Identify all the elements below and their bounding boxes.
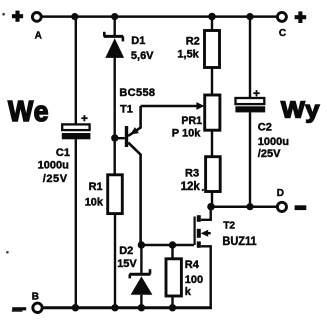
- wire D1 branch top: [113, 17, 115, 37]
- svg-text:C: C: [279, 28, 286, 39]
- wire C2 branch bottom: [249, 112, 251, 206]
- wire D2 cathode lead: [140, 245, 142, 274]
- svg-text:1,5k: 1,5k: [177, 49, 199, 61]
- wire D1 anode to base node: [113, 58, 115, 176]
- svg-text:/25V: /25V: [258, 148, 281, 160]
- svg-text:/25V: /25V: [43, 173, 68, 185]
- svg-text:15V: 15V: [117, 258, 137, 270]
- svg-text:10k: 10k: [85, 196, 104, 208]
- plus symbol at C: [295, 11, 307, 23]
- plus symbol at A: [12, 11, 23, 22]
- svg-text:Wy: Wy: [281, 97, 321, 123]
- junction dot bottom C1: [72, 304, 79, 311]
- scan speck after 12k: [202, 189, 204, 191]
- junction dot drain node: [207, 203, 215, 211]
- wire output row to D: [211, 205, 277, 208]
- C2 value label: [258, 121, 289, 160]
- svg-text:D1: D1: [131, 35, 145, 47]
- capacitor C1: [62, 115, 91, 139]
- terminal D: [277, 202, 286, 211]
- wire T1 base: [115, 137, 125, 139]
- svg-text:T1: T1: [120, 103, 133, 115]
- svg-text:R3: R3: [185, 167, 199, 179]
- scan speck left middle: [6, 251, 9, 254]
- junction dot bottom D2: [138, 304, 145, 311]
- svg-text:We: We: [8, 96, 50, 128]
- svg-text:BC558: BC558: [119, 87, 155, 99]
- terminal A: [32, 13, 41, 22]
- junction dot top rail at C1: [71, 13, 78, 20]
- resistor R4: [166, 259, 181, 296]
- junction dot top rail at R2: [208, 13, 216, 21]
- svg-text:R1: R1: [89, 181, 103, 193]
- svg-text:BUZ11: BUZ11: [222, 234, 256, 248]
- svg-text:5,6V: 5,6V: [131, 50, 154, 62]
- transistor T1 BC558: [125, 106, 141, 245]
- svg-text:D2: D2: [119, 245, 133, 257]
- C1 value label: [38, 147, 70, 185]
- svg-text:1000u: 1000u: [258, 136, 289, 148]
- svg-text:P 10k: P 10k: [172, 127, 201, 139]
- junction dot bottom R4: [169, 304, 176, 311]
- wire R3 to drain node: [211, 192, 213, 207]
- resistor R3: [206, 157, 221, 192]
- wire R2 to PR1: [211, 68, 213, 96]
- svg-text:C2: C2: [258, 121, 272, 133]
- wire bottom rail: [42, 306, 212, 309]
- resistor R2: [205, 31, 220, 68]
- junction dot C2 bottom: [246, 203, 253, 210]
- svg-text:k: k: [185, 286, 192, 298]
- minus symbol at D: [295, 205, 307, 210]
- svg-text:R4: R4: [185, 259, 200, 271]
- terminal B: [33, 303, 42, 312]
- wire C1 branch top: [75, 17, 77, 125]
- wire D2 anode lead: [140, 295, 142, 308]
- zener diode D2: [129, 269, 152, 295]
- terminal C: [277, 12, 286, 21]
- resistor R1: [108, 175, 123, 214]
- wire C1 branch bottom: [75, 139, 77, 307]
- minus symbol at B: [12, 309, 26, 311]
- capacitor C2: [235, 90, 265, 112]
- junction dot gate node: [138, 241, 145, 248]
- junction dot bottom R1: [111, 304, 118, 311]
- junction dot R4 top: [169, 241, 176, 248]
- svg-text:PR1: PR1: [181, 115, 202, 127]
- junction dot top rail at D1: [111, 13, 118, 20]
- svg-text:B: B: [32, 292, 39, 303]
- wire top rail A-C: [41, 15, 278, 18]
- potentiometer PR1: [205, 95, 220, 130]
- wire R1 to bottom rail: [114, 214, 116, 308]
- svg-text:D: D: [277, 188, 284, 199]
- wire R4 top lead: [171, 245, 173, 259]
- svg-text:100: 100: [185, 274, 203, 286]
- PR1 wiper arrow head: [196, 102, 204, 110]
- junction dot top rail at C2: [246, 13, 253, 20]
- node base junction dot: [111, 134, 118, 141]
- wire gate row: [141, 244, 194, 246]
- wire PR1 to R3: [211, 130, 213, 157]
- wire C2 branch top: [249, 17, 251, 98]
- wire wiper to PR1: [141, 105, 199, 107]
- svg-text:1000u: 1000u: [38, 160, 69, 172]
- wire R2 top lead: [211, 17, 213, 31]
- wire R4 bottom lead: [171, 296, 173, 308]
- svg-text:R2: R2: [186, 35, 200, 47]
- svg-text:T2: T2: [223, 220, 235, 231]
- svg-text:C1: C1: [56, 147, 70, 159]
- scan speck top left: [2, 13, 5, 16]
- transistor T2 BUZ11 mosfet: [195, 207, 211, 308]
- zener diode D1: [104, 32, 124, 58]
- svg-text:A: A: [35, 31, 42, 42]
- svg-text:12k: 12k: [181, 181, 201, 193]
